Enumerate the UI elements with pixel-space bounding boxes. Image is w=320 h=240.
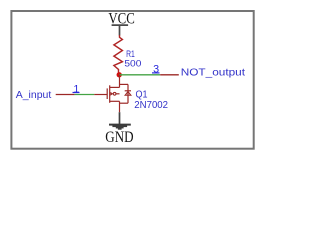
gate pin: [94, 94, 107, 96]
wire net 1: [75, 94, 95, 96]
channel bar: [109, 85, 111, 103]
svg-text:A_input: A_input: [16, 90, 52, 101]
value 2N7002: [134, 100, 168, 111]
drain pin: [119, 75, 121, 88]
wire net 3: [119, 74, 160, 76]
source pin: [119, 101, 121, 112]
port NOT_output: [160, 67, 245, 78]
value 500: [124, 59, 141, 69]
gate bar: [106, 88, 108, 99]
source bar: [110, 100, 120, 102]
junction node: [117, 72, 122, 77]
body contact circle: [113, 92, 116, 95]
body line: [116, 93, 120, 95]
body diode branch: [127, 84, 129, 103]
power VCC: [108, 10, 134, 35]
diode triangle: [125, 92, 131, 96]
svg-text:R1: R1: [126, 48, 135, 60]
svg-text:1: 1: [73, 83, 79, 95]
label R1: [126, 48, 135, 60]
svg-text:GND: GND: [105, 129, 133, 146]
port A_input: [16, 90, 75, 101]
label Q1: [136, 89, 148, 101]
svg-text:3: 3: [153, 64, 159, 76]
drain horizontal: [110, 86, 120, 88]
svg-text:500: 500: [124, 59, 141, 69]
ground GND: [105, 112, 133, 146]
drain-diode rail: [120, 83, 129, 85]
diode cathode bar: [125, 90, 131, 92]
svg-text:NOT_output: NOT_output: [181, 67, 245, 78]
transistor Q1: [94, 75, 131, 112]
net number 3: [152, 64, 160, 76]
svg-text:2N7002: 2N7002: [134, 100, 168, 111]
svg-text:Q1: Q1: [136, 89, 148, 101]
resistor R1: [114, 35, 123, 73]
net number 1: [73, 83, 80, 95]
body arrow: [110, 92, 113, 96]
source-diode rail: [120, 102, 129, 104]
